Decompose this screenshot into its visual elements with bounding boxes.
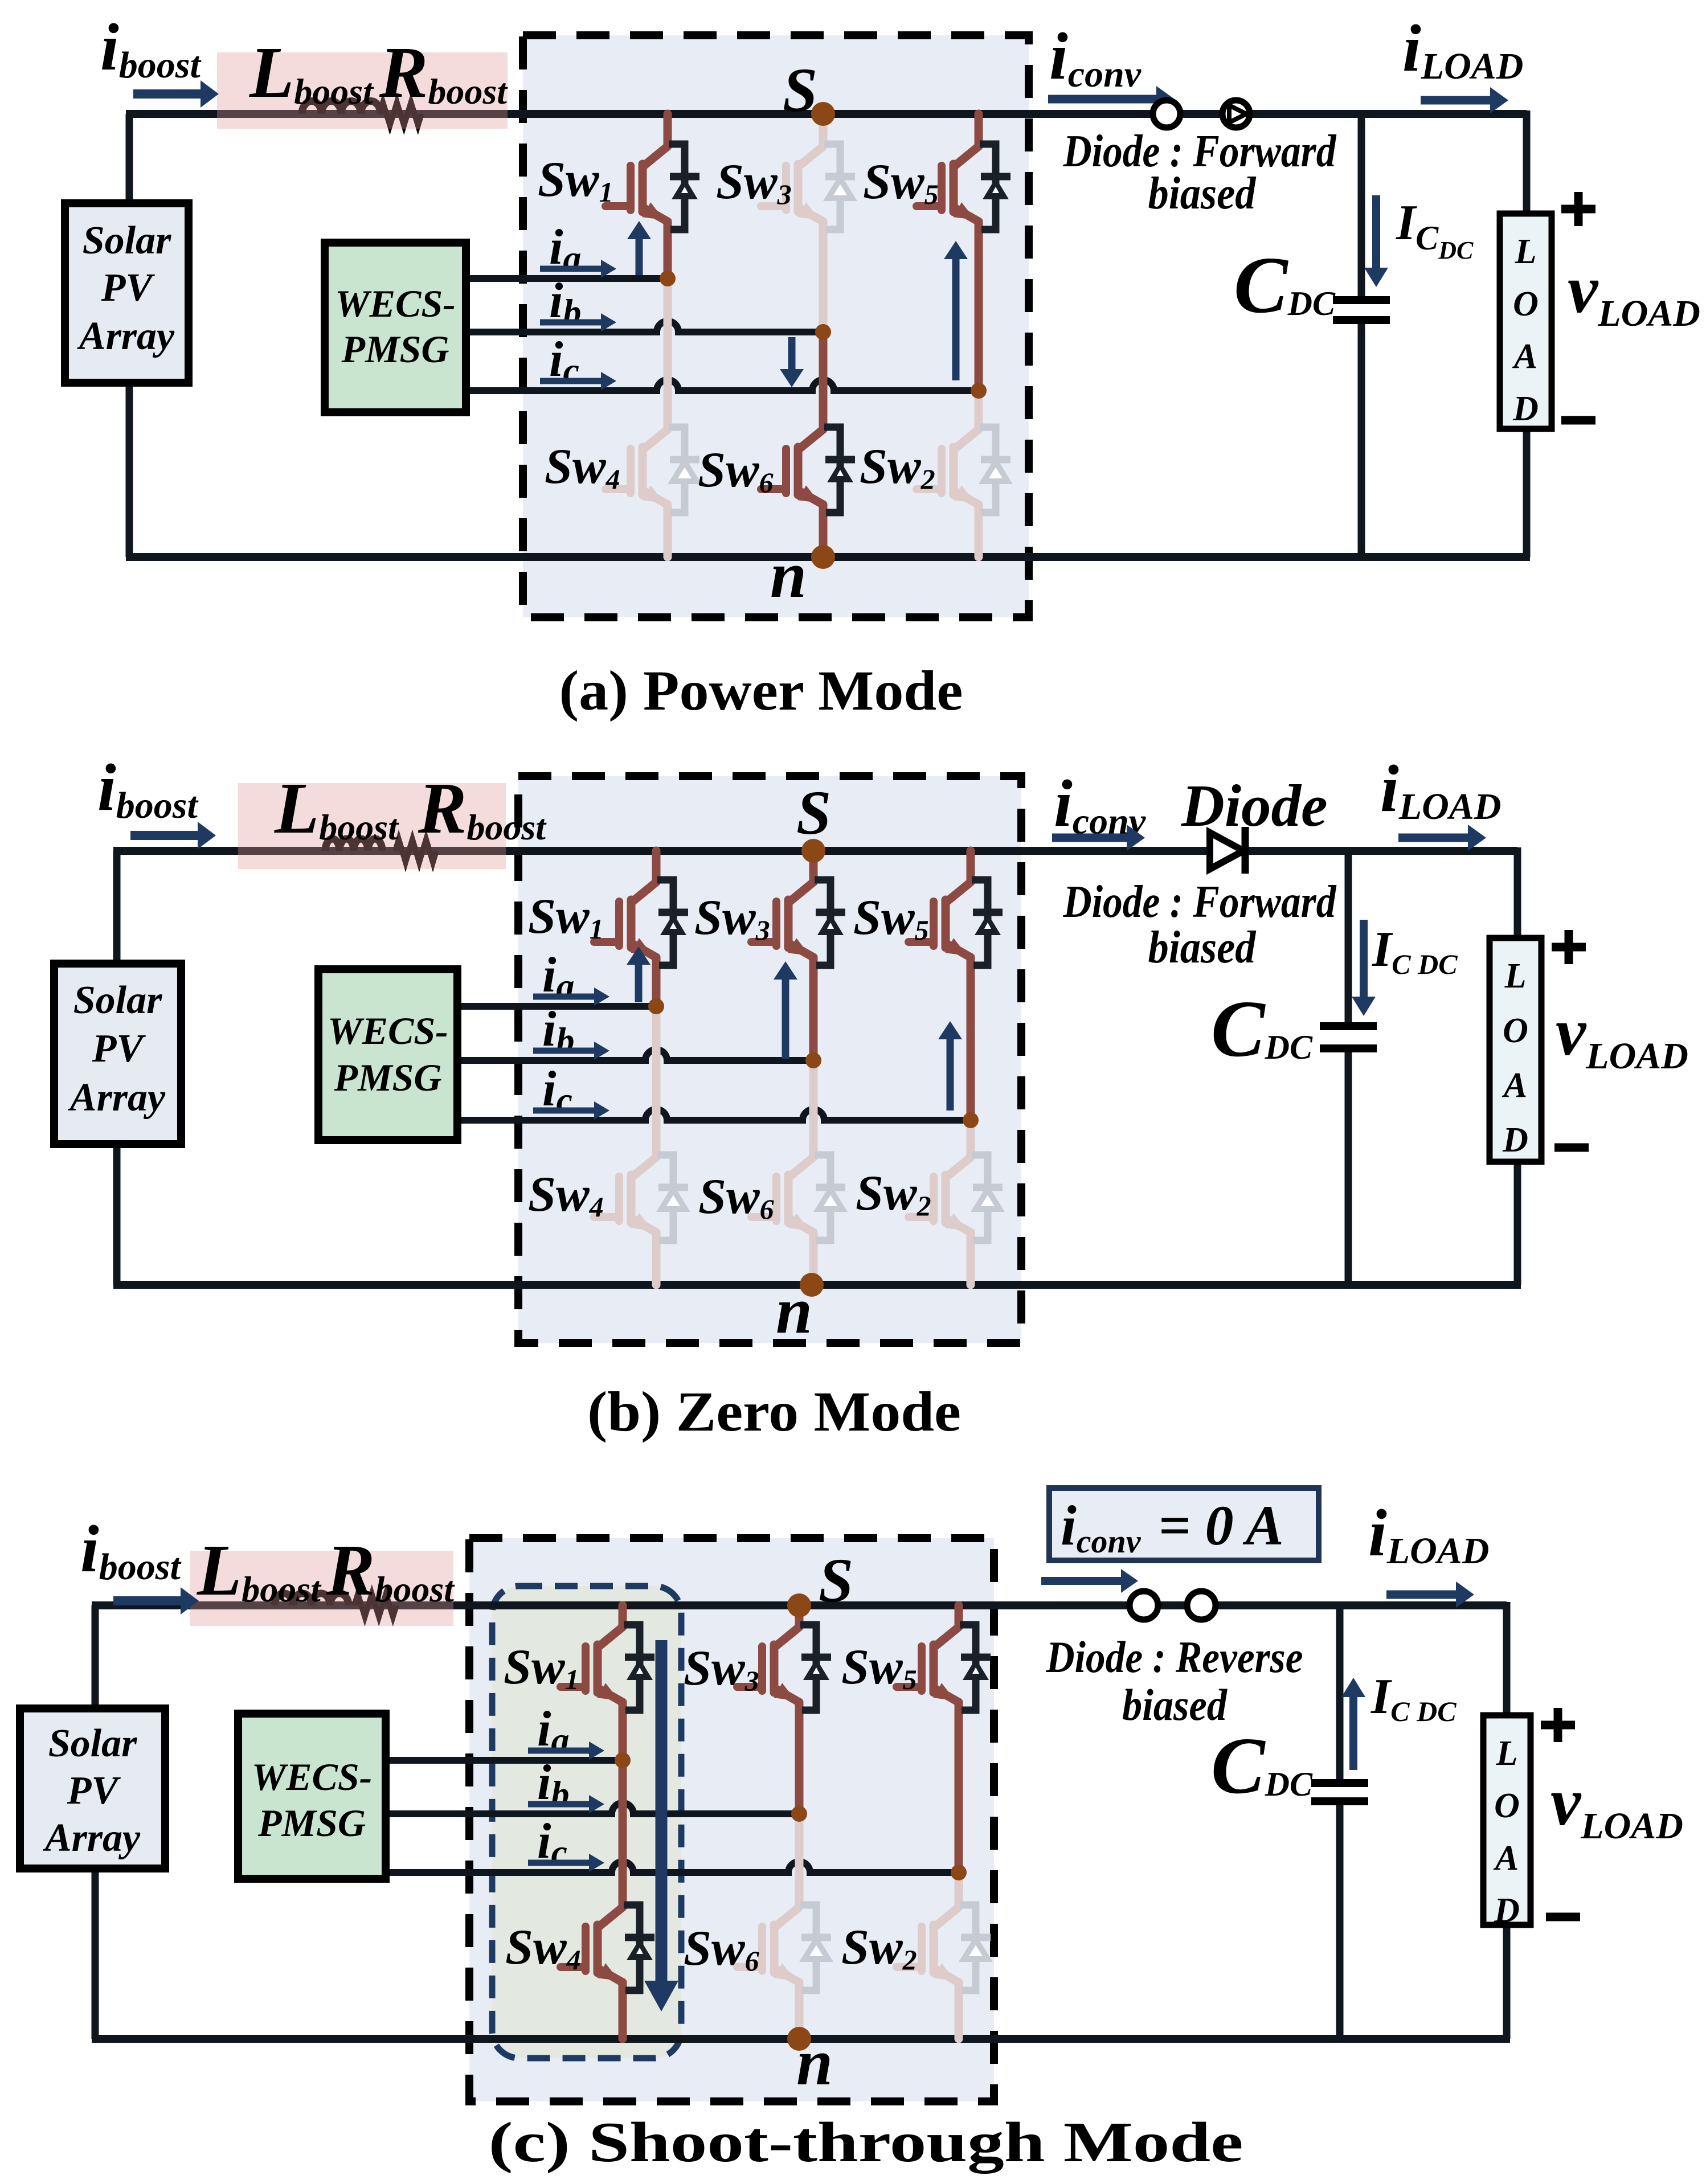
node n (junction dot) bbox=[800, 1273, 824, 1297]
arrow i_conv bbox=[1048, 95, 1159, 104]
block: LOAD bbox=[1500, 214, 1552, 429]
arrow i_b bbox=[533, 1048, 596, 1054]
diode (forward biased) bbox=[1210, 833, 1243, 869]
arrow i_boost bbox=[113, 1596, 183, 1605]
node S (junction dot) bbox=[811, 102, 835, 126]
wire: bottom return rail bbox=[92, 2035, 1510, 2043]
svg-text:Lboost: Lboost bbox=[197, 1530, 322, 1611]
wire: phase a from WECS to bridge bbox=[457, 1003, 656, 1010]
node n (junction dot) bbox=[787, 2027, 811, 2051]
plus terminal bbox=[1541, 1721, 1575, 1730]
wire: phase c from WECS to bridge bbox=[457, 1109, 971, 1120]
wire: phase a from WECS to bridge bbox=[386, 1757, 623, 1764]
minus terminal bbox=[1546, 1913, 1580, 1921]
svg-text:iLOAD: iLOAD bbox=[1380, 751, 1501, 827]
current direction arrow (into Sw5) bbox=[952, 257, 960, 380]
node phase b (junction dot) bbox=[791, 1806, 807, 1822]
svg-text:biased: biased bbox=[1148, 923, 1257, 973]
node phase c (junction dot) bbox=[951, 1865, 967, 1880]
svg-text:PMSG: PMSG bbox=[257, 1801, 366, 1845]
svg-text:O: O bbox=[1503, 1011, 1528, 1050]
inductor L_boost bbox=[275, 1593, 349, 1605]
annotation box: i_conv = 0 A bbox=[1049, 1488, 1319, 1560]
svg-text:PMSG: PMSG bbox=[341, 327, 449, 371]
block: WECS-PMSG bbox=[325, 243, 466, 412]
node phase c (junction dot) bbox=[963, 1112, 979, 1128]
plus terminal bbox=[1561, 205, 1595, 214]
svg-text:WECS-: WECS- bbox=[252, 1755, 373, 1798]
svg-text:n: n bbox=[770, 539, 807, 611]
wire: load branch (right) bbox=[1503, 1602, 1511, 1715]
transistor Sw4 (IGBT off) bbox=[606, 278, 699, 557]
svg-text:Diode: Diode bbox=[1181, 772, 1328, 839]
svg-text:vLOAD: vLOAD bbox=[1556, 994, 1688, 1077]
node n (junction dot) bbox=[811, 545, 835, 569]
wire: solar PV to bottom rail bbox=[126, 383, 133, 557]
converter dashed border (panel c) bbox=[469, 1538, 994, 2101]
svg-text:vLOAD: vLOAD bbox=[1568, 251, 1700, 334]
current direction arrow (into Sw3) bbox=[782, 977, 789, 1059]
plus terminal bbox=[1552, 943, 1586, 952]
transistor Sw3 (IGBT on) bbox=[751, 851, 845, 1060]
svg-text:CDC: CDC bbox=[1211, 984, 1313, 1073]
capacitor C_DC bbox=[1345, 851, 1352, 1023]
current direction arrow (into Sw1) bbox=[636, 237, 643, 275]
svg-text:Lboost: Lboost bbox=[249, 32, 374, 113]
wire: top DC bus bbox=[126, 110, 1527, 118]
svg-text:Lboost: Lboost bbox=[274, 768, 399, 849]
converter dashed border (panel b) bbox=[518, 776, 1021, 1343]
arrow I_C_DC bbox=[1372, 195, 1380, 270]
wire: solar PV to top bus bbox=[126, 114, 133, 203]
svg-text:Rboost: Rboost bbox=[326, 1530, 455, 1611]
svg-text:iconv: iconv bbox=[1049, 19, 1142, 95]
transistor Sw1 (IGBT on) bbox=[561, 1605, 654, 1760]
shoot-through current arrow (panel c) bbox=[656, 1640, 668, 1983]
svg-text:D: D bbox=[1512, 390, 1539, 428]
transistor Sw3 (IGBT on) bbox=[737, 1605, 831, 1814]
svg-text:D: D bbox=[1502, 1121, 1528, 1159]
boost branch highlight (pink) bbox=[190, 1551, 453, 1626]
arrow i_c bbox=[540, 378, 603, 384]
node S (junction dot) bbox=[787, 1593, 811, 1617]
minus terminal bbox=[1561, 416, 1595, 425]
arrow i_c bbox=[528, 1860, 591, 1866]
svg-text:IC DC: IC DC bbox=[1370, 1669, 1457, 1727]
transistor Sw5 (IGBT on) bbox=[909, 851, 1003, 1120]
transistor Sw2 (IGBT off) bbox=[909, 1120, 1003, 1285]
wire: phase a from WECS to bridge bbox=[466, 275, 668, 282]
inductor L_boost bbox=[302, 101, 381, 114]
block: WECS-PMSG bbox=[238, 1714, 386, 1879]
boost branch highlight (pink) bbox=[238, 783, 506, 869]
svg-text:A: A bbox=[1493, 1839, 1519, 1878]
transistor Sw5 (IGBT on) bbox=[897, 1605, 991, 1872]
svg-text:iboost: iboost bbox=[80, 1511, 181, 1588]
node phase b (junction dot) bbox=[815, 324, 831, 340]
transistor Sw4 (IGBT on) bbox=[561, 1760, 654, 2039]
svg-text:PMSG: PMSG bbox=[334, 1056, 442, 1099]
svg-text:CDC: CDC bbox=[1211, 1720, 1313, 1810]
svg-text:iLOAD: iLOAD bbox=[1368, 1495, 1489, 1572]
wire: solar PV to bottom rail bbox=[92, 1869, 99, 2039]
svg-text:IC DC: IC DC bbox=[1372, 922, 1458, 980]
converter bridge region (panel b) bbox=[518, 776, 1021, 1343]
svg-text:O: O bbox=[1513, 285, 1539, 323]
block: LOAD bbox=[1490, 938, 1541, 1162]
svg-text:iboost: iboost bbox=[100, 10, 201, 86]
wire: top DC bus bbox=[113, 847, 1517, 855]
arrow i_LOAD bbox=[1398, 834, 1470, 842]
svg-text:L: L bbox=[1504, 957, 1527, 995]
capacitor C_DC bbox=[1358, 114, 1365, 297]
transistor Sw4 (IGBT off) bbox=[594, 1006, 688, 1285]
wire: phase c from WECS to bridge bbox=[386, 1862, 959, 1872]
inductor L_boost bbox=[325, 839, 382, 851]
wire: solar PV to top bus bbox=[92, 1605, 99, 1708]
node phase a (junction dot) bbox=[660, 271, 676, 286]
arrow i_c bbox=[533, 1108, 596, 1114]
wire: solar PV to bottom rail bbox=[113, 1144, 121, 1285]
capacitor C_DC bbox=[1336, 1605, 1344, 1780]
svg-text:(a) Power Mode: (a) Power Mode bbox=[559, 659, 963, 722]
transistor Sw1 (IGBT on) bbox=[594, 851, 688, 1006]
transistor Sw1 (IGBT on) bbox=[606, 114, 699, 278]
wire: phase c from WECS to bridge bbox=[466, 380, 979, 391]
svg-text:Array: Array bbox=[43, 1816, 141, 1860]
svg-text:Rboost: Rboost bbox=[379, 32, 508, 113]
arrow i_b bbox=[540, 319, 603, 326]
arrow I_C_DC bbox=[1360, 920, 1368, 999]
svg-text:iboost: iboost bbox=[97, 750, 198, 826]
current direction arrow (into Sw5) bbox=[947, 1037, 954, 1111]
wire: bottom return rail bbox=[113, 1281, 1521, 1289]
wire: load branch (right) bbox=[1514, 847, 1521, 938]
svg-text:biased: biased bbox=[1148, 169, 1257, 219]
svg-text:WECS-: WECS- bbox=[328, 1009, 448, 1052]
transistor Sw5 (IGBT on) bbox=[917, 114, 1010, 391]
svg-text:ICDC: ICDC bbox=[1396, 195, 1474, 264]
svg-text:(c) Shoot-through Mode: (c) Shoot-through Mode bbox=[489, 2111, 1243, 2174]
block: WECS-PMSG bbox=[318, 969, 457, 1140]
svg-text:L: L bbox=[1515, 232, 1537, 271]
svg-text:Array: Array bbox=[77, 314, 175, 358]
node S (junction dot) bbox=[801, 839, 825, 863]
arrow i_boost bbox=[133, 89, 203, 99]
svg-text:Diode : Reverse: Diode : Reverse bbox=[1046, 1632, 1303, 1682]
wire: bottom return rail bbox=[126, 553, 1530, 561]
svg-text:Solar: Solar bbox=[83, 219, 171, 263]
svg-text:A: A bbox=[1512, 337, 1537, 376]
transistor Sw3 (IGBT off) bbox=[761, 114, 855, 332]
transistor Sw2 (IGBT off) bbox=[917, 391, 1010, 557]
resistor R_boost bbox=[395, 839, 436, 862]
resistor R_boost bbox=[354, 1594, 396, 1617]
minus terminal bbox=[1554, 1144, 1589, 1152]
svg-text:PV: PV bbox=[101, 266, 156, 310]
svg-text:PV: PV bbox=[67, 1769, 121, 1813]
arrow i_a bbox=[540, 266, 603, 272]
wire: top DC bus bbox=[92, 1601, 1507, 1609]
svg-text:n: n bbox=[776, 1275, 812, 1347]
svg-text:n: n bbox=[796, 2026, 833, 2099]
node phase a (junction dot) bbox=[615, 1752, 631, 1768]
block: Solar PV Array bbox=[20, 1708, 165, 1869]
converter dashed border (panel a) bbox=[523, 35, 1029, 617]
converter bridge region (panel c) bbox=[469, 1538, 994, 2101]
svg-text:A: A bbox=[1502, 1066, 1527, 1105]
current direction arrow (into Sw1) bbox=[635, 962, 643, 1002]
svg-text:S: S bbox=[796, 778, 831, 847]
diode (conducting contact symbols) bbox=[1153, 100, 1180, 128]
svg-text:D: D bbox=[1494, 1891, 1520, 1930]
current direction arrow (into Sw6) bbox=[788, 337, 796, 371]
transistor Sw6 (IGBT off) bbox=[737, 1814, 831, 2039]
svg-text:L: L bbox=[1496, 1734, 1518, 1773]
svg-text:Solar: Solar bbox=[73, 978, 162, 1022]
arrow I_C_DC bbox=[1349, 1695, 1357, 1770]
node phase b (junction dot) bbox=[805, 1052, 821, 1068]
arrow i_LOAD bbox=[1421, 96, 1492, 105]
svg-text:CDC: CDC bbox=[1234, 240, 1336, 330]
transistor Sw6 (IGBT off) bbox=[751, 1060, 845, 1285]
wire: load branch (right) bbox=[1523, 110, 1531, 214]
svg-text:PV: PV bbox=[92, 1027, 146, 1071]
shoot-through leg highlight box (dashed navy, rounded) bbox=[492, 1586, 681, 2058]
node phase c (junction dot) bbox=[971, 383, 987, 399]
wire: phase b from WECS to bridge bbox=[466, 321, 823, 332]
wire: phase b from WECS to bridge bbox=[386, 1803, 799, 1814]
svg-text:S: S bbox=[783, 55, 817, 125]
svg-text:(b) Zero Mode: (b) Zero Mode bbox=[587, 1380, 961, 1443]
arrow i_conv bbox=[1041, 1577, 1123, 1585]
converter bridge region (panel a) bbox=[523, 35, 1029, 617]
svg-text:WECS-: WECS- bbox=[335, 282, 456, 325]
block: LOAD bbox=[1483, 1715, 1531, 1925]
arrow i_a bbox=[528, 1748, 591, 1754]
arrow i_a bbox=[533, 994, 596, 1000]
block: Solar PV Array bbox=[65, 203, 189, 383]
resistor R_boost bbox=[379, 103, 422, 125]
svg-text:iLOAD: iLOAD bbox=[1402, 11, 1523, 87]
svg-text:Array: Array bbox=[68, 1076, 166, 1120]
transistor Sw6 (IGBT on) bbox=[761, 332, 855, 557]
svg-text:O: O bbox=[1494, 1786, 1520, 1825]
svg-text:Diode : Forward: Diode : Forward bbox=[1063, 877, 1337, 927]
arrow i_b bbox=[528, 1801, 591, 1808]
arrow i_conv bbox=[1052, 834, 1129, 842]
node phase a (junction dot) bbox=[648, 998, 664, 1014]
boost branch highlight (pink) bbox=[217, 52, 508, 129]
diode (open contact symbols, reverse biased) bbox=[1130, 1591, 1158, 1620]
arrow i_boost bbox=[130, 831, 200, 840]
svg-text:Solar: Solar bbox=[48, 1722, 137, 1765]
wire: solar PV to top bus bbox=[113, 851, 121, 964]
svg-text:S: S bbox=[819, 1546, 853, 1615]
arrow i_LOAD bbox=[1386, 1591, 1458, 1599]
transistor Sw2 (IGBT off) bbox=[897, 1872, 991, 2039]
wire: phase b from WECS to bridge bbox=[457, 1050, 813, 1060]
block: Solar PV Array bbox=[54, 964, 181, 1144]
svg-text:vLOAD: vLOAD bbox=[1550, 1764, 1683, 1847]
